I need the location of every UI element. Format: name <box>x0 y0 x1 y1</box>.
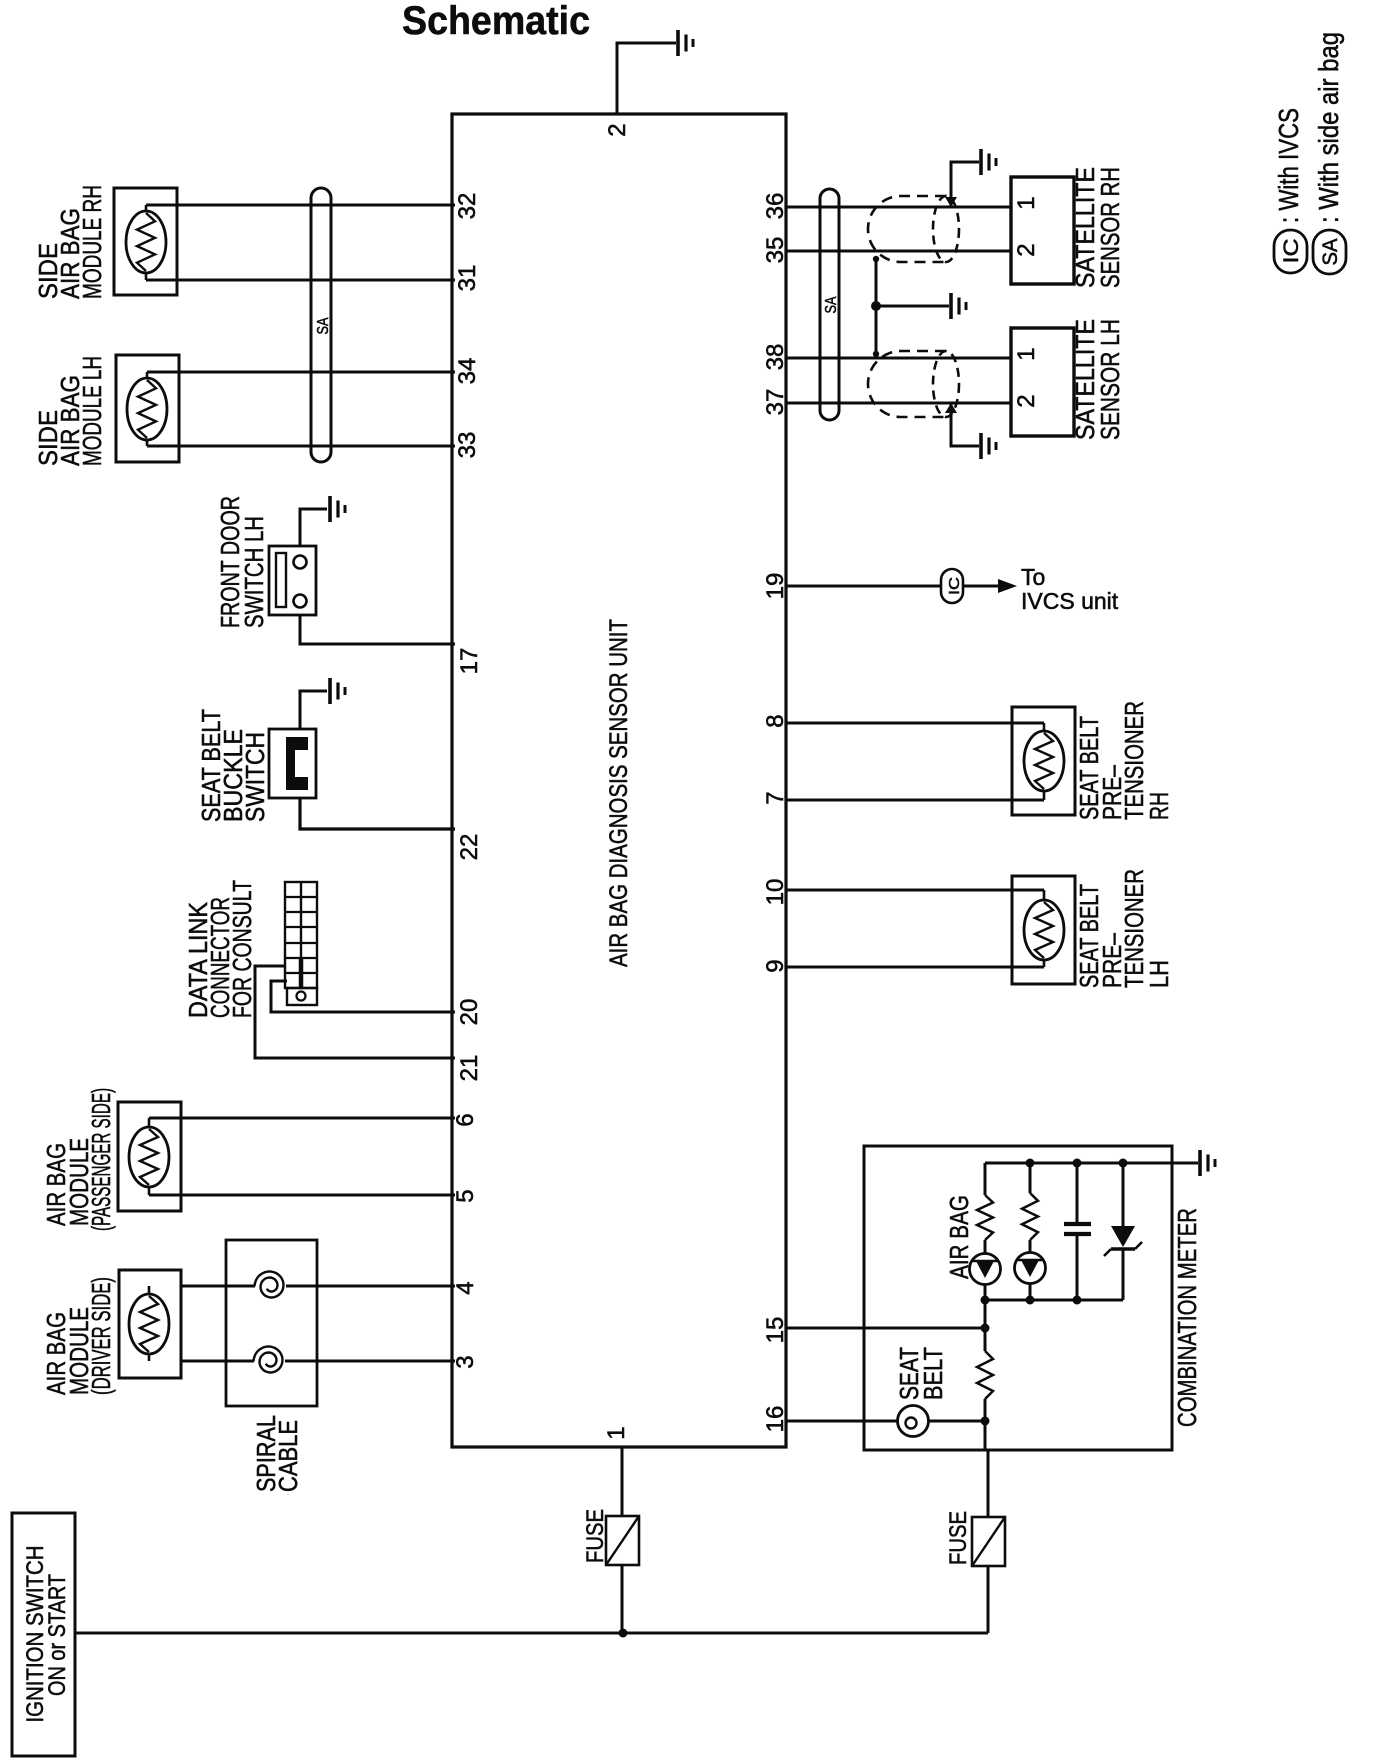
wire branch 1 upper <box>984 1163 987 1195</box>
zener diode D1 <box>1104 1226 1142 1256</box>
pin label 15 <box>762 1317 789 1344</box>
wire pin 34 <box>147 371 455 374</box>
svg-text:ON or START: ON or START <box>44 1574 71 1696</box>
svg-text:21: 21 <box>456 1055 483 1082</box>
svg-text:17: 17 <box>456 648 483 675</box>
wire branch 4 upper <box>1122 1163 1125 1226</box>
pin label 7 <box>762 791 789 804</box>
svg-text:IC: IC <box>1280 239 1303 264</box>
junction dot (pin 15) <box>981 1324 990 1333</box>
wire pin 8 <box>786 723 1044 732</box>
pin label 2 (satellite sensor LH) <box>1013 394 1040 407</box>
air bag warning lamp L1 <box>970 1254 1001 1285</box>
seat belt warning lamp L3 <box>898 1406 929 1437</box>
resistor R2 (air bag lamp 2) <box>1022 1193 1038 1240</box>
front door switch LH box <box>269 546 316 615</box>
wire pin 4 (spiral to unit) <box>286 1285 455 1288</box>
svg-text:To: To <box>1021 564 1045 590</box>
wire pin 22 <box>300 798 455 829</box>
wire lamp node to pin15 node <box>984 1300 987 1351</box>
spiral cable box <box>226 1240 317 1406</box>
pin label 22 <box>456 834 483 861</box>
svg-text:38: 38 <box>762 344 789 371</box>
label SATELLITE SENSOR RH <box>1070 167 1125 288</box>
wire pin 7 <box>786 791 1044 800</box>
wire pin 2 to ground <box>617 43 676 114</box>
combination meter box <box>864 1146 1172 1450</box>
pin label 6 <box>452 1113 479 1126</box>
junction dot (shield drain) <box>871 301 881 311</box>
label DATA LINK CONNECTOR FOR CONSULT <box>183 880 257 1018</box>
svg-text:5: 5 <box>452 1189 479 1202</box>
svg-text:AIR BAG: AIR BAG <box>944 1195 974 1279</box>
seat belt pre-tensioner LH box <box>1012 876 1075 984</box>
junction mark (sensor RH ground) <box>945 197 957 207</box>
wire lamp L2 to lower bus <box>1029 1283 1032 1300</box>
wire pin 9 <box>786 959 1044 967</box>
svg-text:COMBINATION METER: COMBINATION METER <box>1172 1208 1202 1427</box>
squib igniter (pre-tensioner RH) <box>1024 731 1064 791</box>
wire branch 2 upper <box>1029 1163 1032 1193</box>
pin label 2 <box>604 123 631 136</box>
pin label 1 <box>603 1426 630 1439</box>
wire fuse F1 to bus <box>621 1565 624 1633</box>
data link connector for CONSULT <box>285 882 317 1005</box>
shield (satellite sensor LH pair) <box>868 351 959 417</box>
svg-text:LH: LH <box>1144 960 1174 988</box>
svg-text:2: 2 <box>1013 394 1040 407</box>
ground G7 (satellite sensor LH) <box>981 433 996 459</box>
legend SA oval <box>1313 230 1346 274</box>
spiral coil (pin 4 line) <box>255 1272 284 1298</box>
svg-text:: With IVCS: : With IVCS <box>1273 108 1304 223</box>
wire meter lower bus <box>985 1299 1123 1302</box>
resistor R1 (air bag lamp 1) <box>977 1195 993 1240</box>
svg-text:35: 35 <box>762 237 789 264</box>
svg-text:34: 34 <box>454 358 481 385</box>
svg-text:: With side air bag: : With side air bag <box>1313 32 1344 223</box>
wire buckle switch ground <box>300 691 327 729</box>
svg-text:(DRIVER SIDE): (DRIVER SIDE) <box>86 1277 116 1395</box>
label FUSE (F1) <box>582 1509 609 1563</box>
label SEAT BELT PRE-TENSIONER RH <box>1074 701 1174 820</box>
seat belt pre-tensioner RH box <box>1012 707 1075 815</box>
wire pin 37 <box>786 402 1011 405</box>
svg-text:1: 1 <box>1013 347 1040 360</box>
label COMBINATION METER <box>1172 1208 1202 1427</box>
pin label 33 <box>454 432 481 459</box>
svg-text:33: 33 <box>454 432 481 459</box>
label AIR BAG MODULE (PASSENGER SIDE) <box>41 1088 116 1231</box>
svg-text:SA: SA <box>823 296 840 313</box>
wire R1 to lamp L1 <box>984 1240 987 1254</box>
label IC (oval on pin 19 wire) <box>946 577 963 595</box>
front door switch contact 1 <box>294 556 307 569</box>
svg-text:(PASSENGER SIDE): (PASSENGER SIDE) <box>86 1088 116 1231</box>
label FUSE (F2) <box>945 1511 972 1565</box>
label AIR BAG <box>944 1195 974 1279</box>
wire pin 10 <box>786 890 1044 901</box>
wire zener to lower bus <box>1122 1249 1125 1300</box>
svg-text:15: 15 <box>762 1317 789 1344</box>
ignition switch box <box>12 1513 75 1756</box>
junction dot (lower bus b) <box>1026 1296 1035 1305</box>
svg-text:SWITCH LH: SWITCH LH <box>239 516 269 628</box>
pin label 8 <box>762 714 789 727</box>
svg-text:FOR CONSULT: FOR CONSULT <box>227 880 257 1018</box>
svg-text:IC: IC <box>946 577 963 595</box>
pin label 32 <box>454 193 481 220</box>
junction dot (shield RH) <box>873 256 879 262</box>
wire R3 to pin16 node <box>984 1399 987 1421</box>
svg-text:SA: SA <box>315 317 332 334</box>
wire fuse F2 to combination meter <box>987 1450 990 1517</box>
wire pin 1 to fuse <box>621 1447 624 1516</box>
svg-text:9: 9 <box>762 959 789 972</box>
label SEAT BELT (lamp) <box>894 1347 948 1400</box>
label SIDE AIR BAG MODULE LH <box>33 356 107 466</box>
wire satellite sensor RH ground <box>951 162 979 207</box>
side air bag module LH box <box>116 355 179 462</box>
svg-text:31: 31 <box>454 265 481 292</box>
pin label 5 <box>452 1189 479 1202</box>
svg-text:22: 22 <box>456 834 483 861</box>
svg-text:FUSE: FUSE <box>945 1511 972 1565</box>
svg-text:IVCS unit: IVCS unit <box>1021 588 1119 614</box>
wire pin 20 <box>271 981 455 1012</box>
front door switch lever slot <box>276 553 286 607</box>
pin label 16 <box>762 1406 789 1433</box>
svg-text:AIR BAG DIAGNOSIS SENSOR UNIT: AIR BAG DIAGNOSIS SENSOR UNIT <box>605 619 633 967</box>
capacitor C1 <box>1064 1224 1091 1234</box>
wire node to meter bottom <box>984 1421 987 1450</box>
ground G3 (front door switch) <box>330 496 345 522</box>
svg-text:2: 2 <box>604 123 631 136</box>
wire pin 36 <box>786 206 1011 209</box>
arrowhead to IVCS unit <box>998 579 1017 593</box>
air bag diagnosis sensor unit box U1 <box>452 114 786 1447</box>
label FRONT DOOR SWITCH LH <box>215 496 269 628</box>
pin label 17 <box>456 648 483 675</box>
pin label 9 <box>762 959 789 972</box>
svg-text:4: 4 <box>452 1281 479 1294</box>
resistor R3 (seat belt) <box>977 1351 993 1399</box>
pin label 20 <box>456 999 483 1026</box>
pin label 4 <box>452 1281 479 1294</box>
svg-text:7: 7 <box>762 791 789 804</box>
label SIDE AIR BAG MODULE RH <box>33 185 107 299</box>
svg-text:RH: RH <box>1144 792 1174 820</box>
label SATELLITE SENSOR LH <box>1070 319 1125 440</box>
pin label 1 (satellite sensor RH) <box>1013 196 1040 209</box>
side air bag module RH box <box>114 188 177 295</box>
wire pin 4 (module to spiral) <box>181 1285 255 1288</box>
legend label IC <box>1280 239 1303 264</box>
ground G8 (combination meter) <box>1200 1150 1215 1176</box>
svg-text:1: 1 <box>603 1426 630 1439</box>
wire pin 3 (module to spiral) <box>181 1360 254 1363</box>
air bag module (driver side) box <box>119 1270 181 1378</box>
wire pin 17 <box>300 615 455 644</box>
wire pin 6 <box>149 1117 455 1120</box>
svg-text:10: 10 <box>762 879 789 906</box>
pin label 34 <box>454 358 481 385</box>
wire front door switch ground <box>300 509 327 546</box>
squib igniter (side air bag module RH) <box>126 211 166 273</box>
svg-text:36: 36 <box>762 193 789 220</box>
squib igniter (air bag module passenger) <box>129 1127 169 1187</box>
junction dot (lower bus a) <box>981 1296 990 1305</box>
label AIR BAG MODULE (DRIVER SIDE) <box>41 1277 116 1395</box>
legend text With side air bag <box>1313 32 1344 223</box>
squib igniter (side air bag module LH) <box>127 378 167 440</box>
ground G2 (pin 2) <box>678 30 693 56</box>
wire pin 38 <box>786 357 1011 360</box>
svg-text:FUSE: FUSE <box>582 1509 609 1563</box>
label SA (right oval) <box>823 296 840 313</box>
wire lamp L3 to node <box>928 1420 985 1423</box>
svg-text:32: 32 <box>454 193 481 220</box>
svg-text:CABLE: CABLE <box>273 1420 303 1492</box>
wire pin 32 <box>146 204 455 207</box>
fuse F1 <box>606 1516 639 1565</box>
shield (satellite sensor RH pair) <box>868 196 959 262</box>
fuse F2 <box>972 1517 1005 1566</box>
front door switch contact 2 <box>294 595 307 608</box>
junction dot (top bus b) <box>1073 1159 1082 1168</box>
label IGNITION SWITCH ON or START <box>22 1546 71 1723</box>
junction dot (lower bus c) <box>1073 1296 1082 1305</box>
pin label 19 <box>762 573 789 600</box>
svg-text:2: 2 <box>1013 243 1040 256</box>
svg-text:Schematic: Schematic <box>402 0 590 43</box>
pin label 35 <box>762 237 789 264</box>
junction dot (top bus a) <box>1026 1159 1035 1168</box>
svg-text:SENSOR RH: SENSOR RH <box>1095 167 1125 288</box>
pin label 2 (satellite sensor RH) <box>1013 243 1040 256</box>
wire lamp L1 to lower bus <box>984 1284 987 1300</box>
seat belt buckle switch box <box>269 729 316 798</box>
svg-text:1: 1 <box>1013 196 1040 209</box>
IC connector oval (pin 19 wire) <box>941 569 963 603</box>
SA connector oval (left) <box>311 188 331 462</box>
wire pin 35 <box>786 250 1011 253</box>
ground G4 (buckle switch) <box>330 678 345 704</box>
label To IVCS unit <box>1021 564 1119 614</box>
satellite sensor RH box <box>1011 177 1074 284</box>
junction mark (sensor LH ground) <box>945 403 957 413</box>
svg-text:37: 37 <box>762 389 789 416</box>
wire pin 31 <box>146 279 455 282</box>
wire supply bus <box>75 1632 988 1635</box>
wire pin 21 <box>255 966 455 1058</box>
seat belt buckle switch contact <box>286 737 308 790</box>
junction dot (bus / fuse F1) <box>619 1629 628 1638</box>
pin label 1 (satellite sensor LH) <box>1013 347 1040 360</box>
ground G6 (shield drain) <box>951 293 966 319</box>
wire capacitor to lower bus <box>1076 1236 1079 1300</box>
ground G5 (satellite sensor RH) <box>981 149 996 175</box>
junction dot (pin 16) <box>981 1417 990 1426</box>
wire pin 5 <box>149 1194 455 1197</box>
title text Schematic <box>402 0 590 43</box>
pin label 36 <box>762 193 789 220</box>
legend IC oval <box>1274 230 1307 273</box>
wire pin 19 <box>786 585 998 588</box>
svg-text:19: 19 <box>762 573 789 600</box>
svg-text:MODULE RH: MODULE RH <box>77 185 107 299</box>
spiral coil (pin 3 line) <box>254 1347 283 1373</box>
svg-text:3: 3 <box>452 1355 479 1368</box>
pin label 3 <box>452 1355 479 1368</box>
wire pin 3 (spiral to unit) <box>285 1360 455 1363</box>
svg-text:MODULE LH: MODULE LH <box>77 356 107 466</box>
legend text With IVCS <box>1273 108 1304 223</box>
wire pin 16 <box>786 1420 898 1423</box>
squib igniter (pre-tensioner LH) <box>1024 900 1064 960</box>
wire pin 33 <box>147 445 455 448</box>
wire shield drain <box>876 259 949 354</box>
label SEAT BELT BUCKLE SWITCH <box>196 709 270 822</box>
pin label 37 <box>762 389 789 416</box>
pin label 10 <box>762 879 789 906</box>
satellite sensor LH box <box>1011 328 1074 436</box>
svg-text:BELT: BELT <box>918 1347 948 1400</box>
wire satellite sensor LH ground <box>951 403 979 446</box>
svg-text:16: 16 <box>762 1406 789 1433</box>
air bag warning lamp L2 <box>1015 1253 1046 1284</box>
svg-text:SWITCH: SWITCH <box>240 732 270 822</box>
svg-text:SENSOR LH: SENSOR LH <box>1095 319 1125 440</box>
svg-text:SA: SA <box>1319 239 1342 266</box>
air bag module (passenger side) box <box>118 1102 181 1211</box>
SA connector oval (right) <box>820 189 839 420</box>
label SA (left oval) <box>315 317 332 334</box>
svg-text:6: 6 <box>452 1113 479 1126</box>
label SEAT BELT PRE-TENSIONER LH <box>1074 869 1174 988</box>
legend label SA <box>1319 239 1342 266</box>
wire bus to fuse F2 <box>987 1566 990 1633</box>
wire R2 to lamp L2 <box>1029 1240 1032 1253</box>
junction dot (top bus c) <box>1119 1159 1128 1168</box>
label AIR BAG DIAGNOSIS SENSOR UNIT <box>605 619 633 967</box>
squib igniter (air bag module driver) <box>129 1294 169 1354</box>
pin label 31 <box>454 265 481 292</box>
pin label 21 <box>456 1055 483 1082</box>
pin label 38 <box>762 344 789 371</box>
wire meter top bus <box>985 1162 1198 1165</box>
wire pin 15 <box>786 1327 985 1330</box>
junction dot (shield LH) <box>873 351 879 357</box>
svg-text:20: 20 <box>456 999 483 1026</box>
wire branch 3 upper <box>1076 1163 1079 1222</box>
label SPIRAL CABLE <box>251 1415 303 1492</box>
svg-text:8: 8 <box>762 714 789 727</box>
